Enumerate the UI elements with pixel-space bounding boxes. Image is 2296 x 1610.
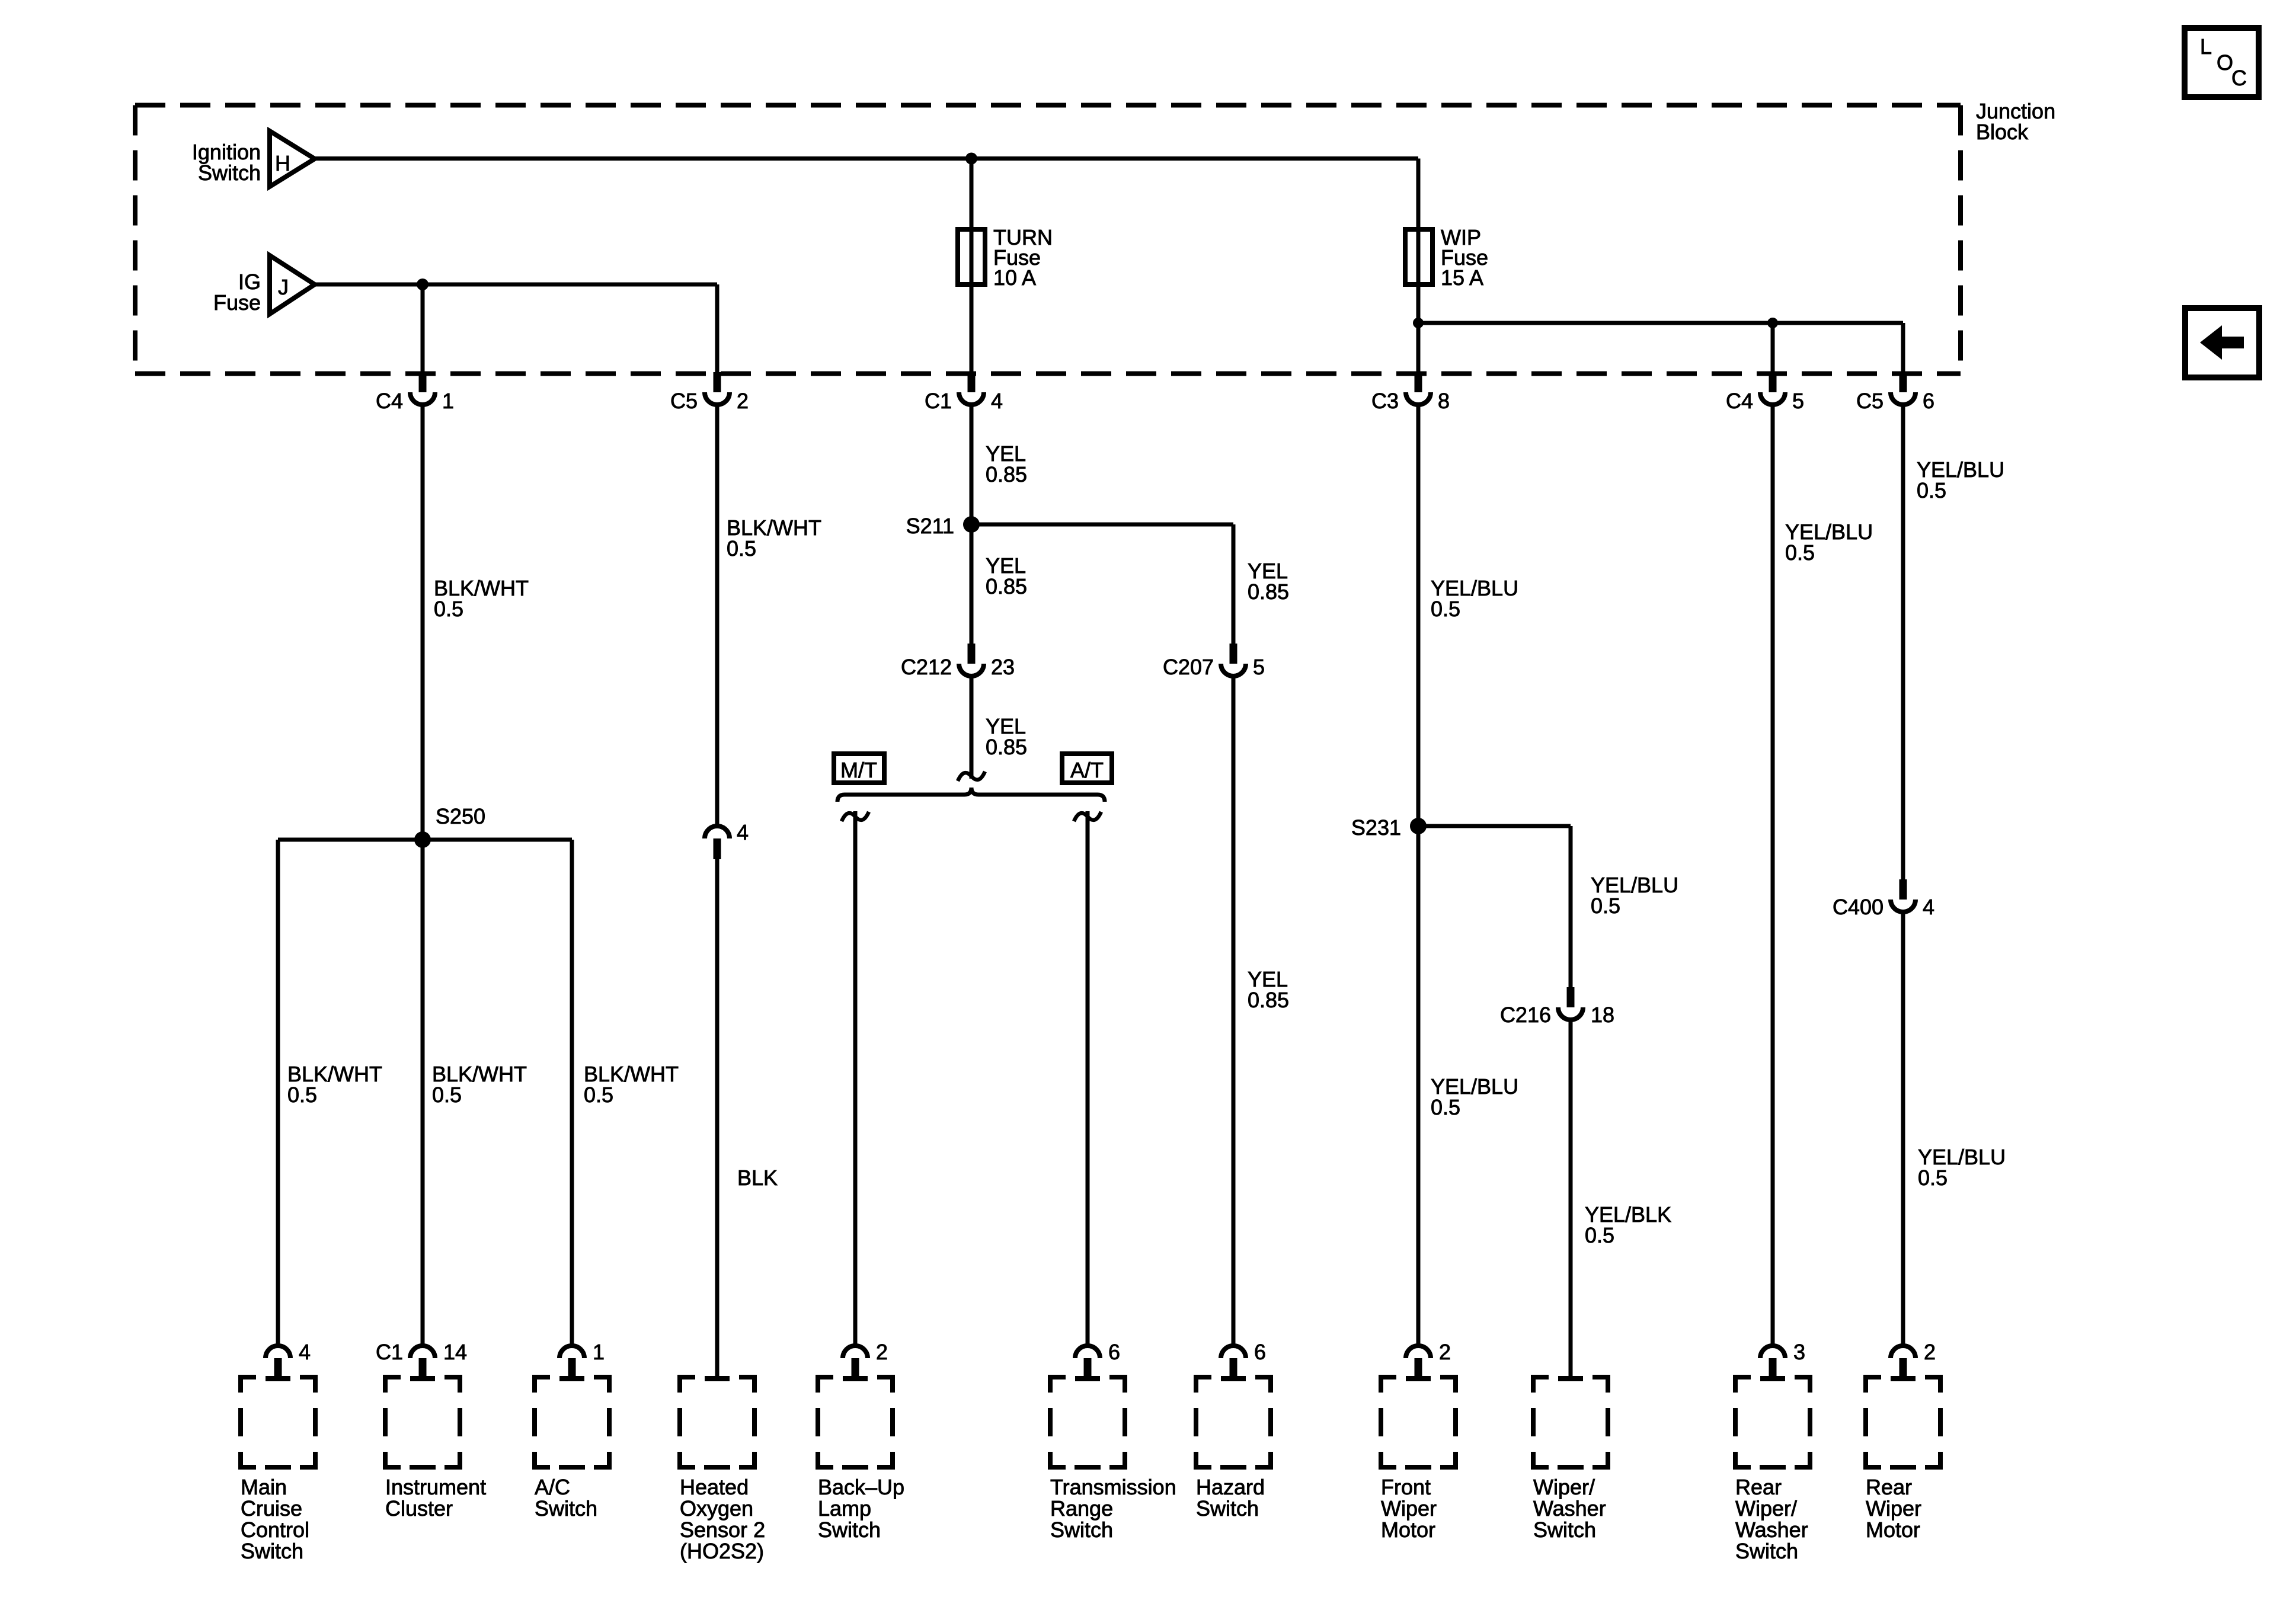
connector triangle J (IG Fuse)	[270, 255, 315, 314]
svg-text:0.85: 0.85	[986, 574, 1027, 598]
svg-text:Instrument: Instrument	[385, 1475, 486, 1499]
svg-text:2: 2	[1924, 1340, 1936, 1364]
svg-text:14: 14	[443, 1340, 467, 1364]
svg-text:8: 8	[1438, 389, 1450, 413]
svg-text:BLK: BLK	[737, 1166, 778, 1190]
svg-text:Cluster: Cluster	[385, 1496, 453, 1521]
wire C1-4 to S211	[970, 405, 974, 524]
svg-text:J: J	[278, 275, 289, 299]
svg-text:3: 3	[1793, 1340, 1805, 1364]
svg-text:Back–Up: Back–Up	[818, 1475, 904, 1499]
wire TURN fuse drop	[970, 159, 974, 373]
svg-text:1: 1	[593, 1340, 605, 1364]
svg-text:0.5: 0.5	[432, 1083, 462, 1107]
svg-text:Sensor 2: Sensor 2	[680, 1518, 765, 1542]
wire col3 branch	[570, 840, 574, 1346]
connector C212 pin 23	[968, 644, 976, 664]
connector triangle H (Ignition Switch)	[270, 131, 315, 187]
svg-text:23: 23	[991, 655, 1015, 679]
svg-text:L: L	[2200, 34, 2212, 59]
component box Main Cruise Control Switch	[266, 1376, 290, 1381]
connector pin 2 (Front Wiper Motor)	[1406, 1346, 1431, 1358]
svg-text:C212: C212	[901, 655, 952, 679]
connector pin 2 (Back-Up Lamp Switch)	[843, 1346, 868, 1358]
wire break squiggle col5	[958, 772, 985, 781]
connector pin 6 (Hazard Switch)	[1221, 1346, 1246, 1358]
svg-text:O: O	[2217, 50, 2233, 75]
svg-text:0.5: 0.5	[434, 597, 463, 621]
connector C5 pin 2	[714, 372, 721, 392]
component box Front Wiper Motor	[1406, 1376, 1431, 1381]
connector pin 4 (Main Cruise Control Switch)	[266, 1346, 290, 1358]
svg-text:Switch: Switch	[818, 1518, 881, 1542]
wire M/T branch	[853, 811, 858, 1346]
connector C216 pin 18	[1567, 987, 1575, 1007]
svg-text:Switch: Switch	[198, 161, 261, 185]
wire IG fuse J feed	[315, 284, 717, 372]
svg-text:Switch: Switch	[1196, 1496, 1259, 1521]
svg-text:Washer: Washer	[1533, 1496, 1606, 1521]
wire S211 to C212	[970, 524, 974, 644]
svg-text:0.5: 0.5	[1917, 478, 1946, 502]
wire C4-5 drop	[1771, 323, 1775, 372]
wire S211 to C207	[971, 524, 1233, 644]
junction dot WIP branch	[1413, 318, 1424, 328]
splice S231	[1410, 818, 1427, 834]
connector C207 pin 5	[1230, 644, 1237, 664]
svg-text:Switch: Switch	[1533, 1518, 1596, 1542]
svg-text:6: 6	[1923, 389, 1934, 413]
junction dot C4-5 branch	[1767, 318, 1778, 328]
svg-text:4: 4	[737, 820, 749, 844]
svg-text:Rear: Rear	[1866, 1475, 1912, 1499]
connector pin 14 (Instrument Cluster)	[410, 1346, 435, 1358]
component box Wiper/ Washer Switch	[1558, 1376, 1583, 1381]
svg-text:C3: C3	[1371, 389, 1399, 413]
svg-text:2: 2	[737, 389, 749, 413]
component box Back-Up Lamp Switch	[843, 1376, 868, 1381]
wire col11 to C400	[1901, 405, 1905, 879]
svg-text:18: 18	[1591, 1003, 1614, 1027]
svg-text:Rear: Rear	[1735, 1475, 1782, 1499]
wire ignition switch H feed	[315, 156, 1418, 161]
svg-text:Transmission: Transmission	[1050, 1475, 1176, 1499]
svg-text:Hazard: Hazard	[1196, 1475, 1265, 1499]
svg-text:C400: C400	[1833, 895, 1884, 919]
svg-text:Wiper/: Wiper/	[1533, 1475, 1595, 1499]
svg-text:Switch: Switch	[1050, 1518, 1113, 1542]
svg-text:Front: Front	[1381, 1475, 1431, 1499]
svg-text:A/T: A/T	[1070, 758, 1104, 782]
svg-text:5: 5	[1253, 655, 1265, 679]
svg-text:0.85: 0.85	[986, 462, 1027, 486]
connector pin 4 col4	[705, 826, 730, 838]
svg-text:0.5: 0.5	[1585, 1223, 1614, 1247]
svg-text:4: 4	[1923, 895, 1934, 919]
svg-text:Oxygen: Oxygen	[680, 1496, 753, 1521]
junction dot H/TURN	[965, 153, 977, 165]
tag box A/T	[1062, 754, 1112, 783]
connector pin 2 (Rear Wiper Motor)	[1891, 1346, 1916, 1358]
connector C3 pin 8	[1415, 372, 1422, 392]
splice S211	[963, 516, 980, 533]
svg-text:(HO2S2): (HO2S2)	[680, 1539, 764, 1563]
svg-text:5: 5	[1792, 389, 1804, 413]
svg-text:Block: Block	[1976, 120, 2029, 144]
component box A/C Switch	[559, 1376, 584, 1381]
connector C4 pin 1	[419, 372, 427, 392]
connector C4 pin 5	[1769, 372, 1777, 392]
wire C216 to wiper/washer switch	[1569, 1020, 1573, 1381]
wire WIP fuse drop	[1416, 159, 1421, 373]
svg-text:Control: Control	[241, 1518, 309, 1542]
svg-text:0.85: 0.85	[986, 735, 1027, 759]
svg-text:Washer: Washer	[1735, 1518, 1808, 1542]
wire C3-8 to front wiper motor	[1416, 405, 1421, 1346]
svg-text:15 A: 15 A	[1441, 265, 1483, 290]
svg-text:Lamp: Lamp	[818, 1496, 871, 1521]
wire S250 crossbar	[278, 838, 572, 842]
fuse WIP 15 A	[1405, 229, 1432, 284]
brace M/T-A/T	[837, 788, 1105, 802]
svg-text:Wiper: Wiper	[1866, 1496, 1921, 1521]
svg-text:0.5: 0.5	[1431, 1095, 1460, 1119]
svg-text:0.85: 0.85	[1248, 988, 1289, 1012]
splice S250	[414, 831, 431, 848]
arrow reference box	[2185, 308, 2259, 377]
svg-text:0.85: 0.85	[1248, 580, 1289, 604]
connector C400 pin 4	[1900, 879, 1907, 900]
svg-text:H: H	[275, 151, 290, 175]
svg-text:0.5: 0.5	[584, 1083, 613, 1107]
svg-text:A/C: A/C	[535, 1475, 570, 1499]
wire col4 BLK	[715, 859, 720, 1381]
svg-text:1: 1	[442, 389, 454, 413]
component box Heated Oxygen Sensor 2 (HO2S2)	[705, 1376, 730, 1381]
svg-text:C4: C4	[1726, 389, 1753, 413]
component box Instrument Cluster	[410, 1376, 435, 1381]
svg-text:C4: C4	[376, 389, 403, 413]
svg-text:Cruise: Cruise	[241, 1496, 302, 1521]
svg-text:M/T: M/T	[840, 758, 877, 782]
svg-text:Range: Range	[1050, 1496, 1113, 1521]
svg-text:Motor: Motor	[1381, 1518, 1435, 1542]
svg-text:Switch: Switch	[535, 1496, 597, 1521]
svg-text:4: 4	[991, 389, 1003, 413]
svg-text:C: C	[2231, 66, 2247, 90]
svg-text:0.5: 0.5	[1785, 540, 1815, 565]
svg-text:0.5: 0.5	[287, 1083, 317, 1107]
wire col10 to rear wiper/washer switch	[1771, 405, 1775, 1346]
svg-text:S211: S211	[906, 514, 954, 538]
svg-text:C216: C216	[1500, 1003, 1551, 1027]
component box Transmission Range Switch	[1075, 1376, 1100, 1381]
wire C212 down to break	[970, 676, 974, 779]
svg-text:S231: S231	[1351, 815, 1401, 840]
svg-text:Switch: Switch	[1735, 1539, 1798, 1563]
svg-text:10 A: 10 A	[993, 265, 1036, 290]
junction dot J/C4	[417, 279, 428, 290]
wire C400 to rear wiper motor	[1901, 912, 1905, 1346]
connector C1 pin 4	[968, 372, 976, 392]
LOC reference box	[2185, 28, 2259, 97]
component box Rear Wiper Motor	[1891, 1376, 1916, 1381]
wire break squiggle M/T	[842, 812, 869, 821]
svg-text:Wiper: Wiper	[1381, 1496, 1437, 1521]
svg-text:C207: C207	[1163, 655, 1214, 679]
wire col4 BLK/WHT	[715, 405, 720, 827]
svg-text:2: 2	[876, 1340, 888, 1364]
wire break squiggle A/T	[1074, 812, 1101, 821]
fuse TURN 10 A	[958, 229, 985, 284]
svg-text:4: 4	[299, 1340, 311, 1364]
wire WIP output branch	[1418, 323, 1903, 372]
wire C207 to hazard switch	[1232, 676, 1236, 1346]
svg-text:C5: C5	[1856, 389, 1884, 413]
svg-text:Wiper/: Wiper/	[1735, 1496, 1797, 1521]
svg-text:0.5: 0.5	[1431, 597, 1460, 621]
svg-text:6: 6	[1108, 1340, 1120, 1364]
svg-text:S250: S250	[436, 804, 485, 828]
svg-text:2: 2	[1439, 1340, 1451, 1364]
svg-text:C1: C1	[376, 1340, 403, 1364]
svg-text:0.5: 0.5	[1918, 1166, 1948, 1190]
connector pin 1 (A/C Switch)	[559, 1346, 584, 1358]
wire col2 BLK/WHT	[421, 405, 425, 1346]
wire col1 branch	[276, 840, 280, 1346]
connector pin 6 (Transmission Range Switch)	[1075, 1346, 1100, 1358]
svg-text:0.5: 0.5	[727, 536, 756, 561]
tag box M/T	[834, 754, 884, 783]
svg-text:6: 6	[1254, 1340, 1266, 1364]
wire A/T branch	[1086, 811, 1090, 1346]
svg-text:Motor: Motor	[1866, 1518, 1920, 1542]
junction block dashed box	[135, 105, 1961, 374]
component box Rear Wiper/ Washer Switch	[1760, 1376, 1785, 1381]
svg-text:Main: Main	[241, 1475, 287, 1499]
svg-text:0.5: 0.5	[1591, 894, 1620, 918]
svg-text:C5: C5	[670, 389, 698, 413]
connector pin 3 (Rear Wiper/ Washer Switch)	[1760, 1346, 1785, 1358]
svg-text:Switch: Switch	[241, 1539, 303, 1563]
svg-text:Heated: Heated	[680, 1475, 749, 1499]
svg-text:C1: C1	[925, 389, 952, 413]
svg-text:Fuse: Fuse	[213, 290, 261, 315]
wire C4-1 drop	[421, 284, 425, 372]
wire S231 to C216	[1418, 826, 1571, 987]
component box Hazard Switch	[1221, 1376, 1246, 1381]
connector C5 pin 6	[1900, 372, 1907, 392]
